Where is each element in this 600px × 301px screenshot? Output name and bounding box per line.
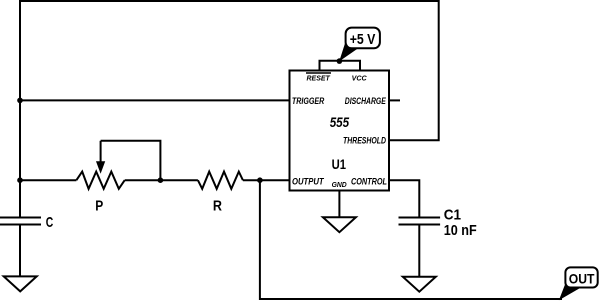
ground symbol under C1: [403, 277, 436, 292]
resistor R (zigzag): [198, 172, 243, 189]
pin label RESET overline: [306, 72, 331, 74]
IC U1 555 body: [290, 71, 390, 191]
capacitor C bottom plate: [0, 224, 41, 226]
svg-text:GND: GND: [332, 180, 347, 189]
wire top rail: [20, 0, 439, 2]
pin stub DISCHARGE: [389, 99, 400, 101]
junction dot output node: [257, 177, 263, 183]
capacitor C top plate: [0, 217, 41, 219]
wire pot to resistor R: [125, 179, 198, 181]
junction dot trigger / left rail: [17, 98, 23, 104]
svg-text:R: R: [213, 198, 222, 215]
+5V flag tail: [339, 43, 358, 62]
pin GND lead: [338, 191, 340, 218]
svg-text:THRESHOLD: THRESHOLD: [343, 136, 386, 146]
svg-text:P: P: [95, 198, 103, 215]
svg-text:TRIGGER: TRIGGER: [292, 96, 325, 106]
potentiometer P wiper arrow shaft: [100, 141, 102, 164]
wire right vertical drop to THRESHOLD pin: [389, 0, 439, 140]
wire left rail: [19, 0, 21, 218]
ground symbol under C: [4, 276, 37, 291]
wire TRIGGER to left rail: [20, 99, 290, 101]
potentiometer P body (zigzag): [76, 172, 124, 189]
svg-text:U1: U1: [332, 156, 347, 172]
OUT flag tail: [559, 284, 579, 300]
wire left rail to potentiometer: [20, 179, 76, 181]
potentiometer P wiper arrowhead: [97, 162, 105, 173]
OUT flag box: [565, 267, 597, 287]
pin RESET and VCC bracket wire: [320, 61, 361, 71]
wire output node down and right to OUT flag: [260, 180, 562, 299]
svg-text:OUTPUT: OUTPUT: [292, 176, 325, 186]
wire wiper loop to pot right terminal: [101, 141, 161, 180]
svg-text:10 nF: 10 nF: [444, 222, 477, 239]
svg-text:C: C: [46, 214, 54, 231]
svg-text:555: 555: [330, 114, 350, 130]
svg-text:OUT: OUT: [569, 270, 595, 286]
+5V flag box: [346, 28, 380, 49]
capacitor C1 bottom plate: [399, 224, 441, 226]
wire capacitor C lower lead: [19, 225, 21, 277]
wire R to OUTPUT pin: [243, 179, 290, 181]
svg-text:+5 V: +5 V: [350, 31, 376, 48]
capacitor C1 top plate: [399, 217, 441, 219]
svg-text:CONTROL: CONTROL: [351, 176, 387, 186]
svg-text:RESET: RESET: [307, 73, 332, 82]
wire C1 lower lead: [418, 225, 420, 277]
+5V flag tail dot: [337, 58, 343, 64]
svg-text:DISCHARGE: DISCHARGE: [345, 96, 387, 106]
wire CONTROL pin to C1: [389, 180, 419, 217]
svg-text:VCC: VCC: [352, 73, 368, 82]
ground symbol under GND pin: [323, 217, 356, 232]
junction dot wiper tie: [158, 177, 164, 183]
junction dot cap node / left rail: [17, 177, 23, 183]
